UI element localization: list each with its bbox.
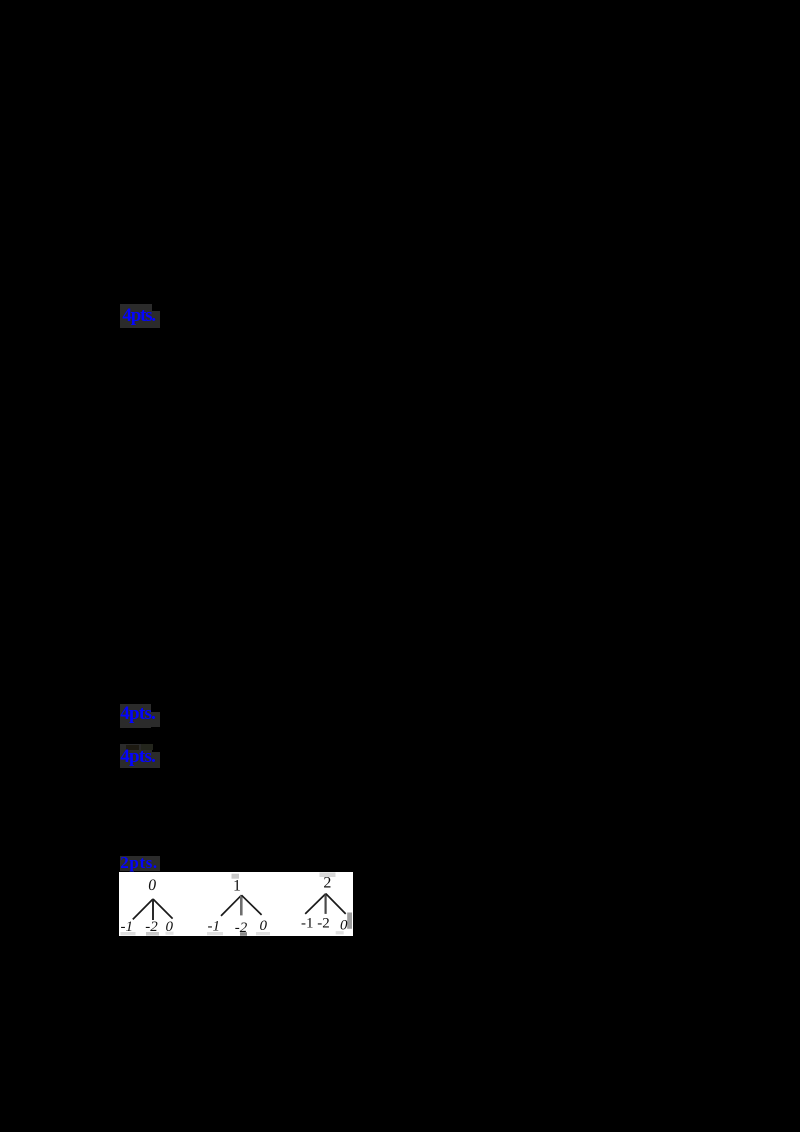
link 3 blue text: [120, 746, 155, 768]
link 4 blue text: [120, 853, 157, 873]
svg-text:0: 0: [259, 918, 267, 934]
jpeg artifact block below tree2 leaf -2: [240, 932, 247, 936]
link 1 blue text: [122, 305, 155, 327]
link box 4 background: [120, 856, 160, 872]
tree 1 branches: [133, 899, 153, 919]
link box 1 background (stepped): [120, 304, 152, 328]
svg-text:-2: -2: [145, 919, 158, 935]
jpeg artifact block above root 2: [319, 872, 335, 877]
svg-text:-1: -1: [120, 919, 132, 935]
link 3 faint dark glyph marks above: [126, 745, 139, 750]
jpeg artifact light blocks along bottom: [120, 932, 135, 935]
svg-text:-2: -2: [235, 920, 248, 936]
svg-text:1: 1: [233, 877, 241, 894]
svg-text:0: 0: [147, 877, 157, 894]
svg-text:0: 0: [165, 919, 173, 935]
svg-text:-2: -2: [317, 915, 329, 931]
tree 3 branches: [305, 893, 326, 913]
jpeg artifact block right of tree3 leaf 0: [347, 912, 352, 928]
svg-text:-1: -1: [301, 915, 313, 931]
link 2 blue text: [120, 703, 155, 725]
tree 2 branches: [221, 895, 241, 916]
svg-text:0: 0: [340, 917, 348, 933]
link box 2 background (stepped): [120, 704, 151, 728]
svg-text:-1: -1: [207, 918, 219, 934]
svg-text:2: 2: [323, 874, 331, 891]
link box 3 background (stepped): [120, 744, 152, 768]
figure: white panel with three game trees: [119, 872, 353, 937]
jpeg artifact block above root 1: [231, 873, 238, 878]
